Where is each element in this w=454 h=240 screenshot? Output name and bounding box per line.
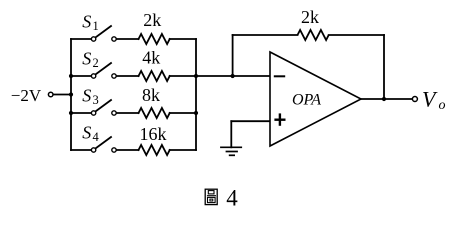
- svg-text:8k: 8k: [142, 85, 160, 105]
- svg-text:4: 4: [93, 130, 100, 144]
- svg-text:3: 3: [93, 93, 99, 107]
- svg-text:2: 2: [93, 56, 99, 70]
- svg-text:S: S: [82, 86, 91, 106]
- svg-text:4: 4: [226, 186, 238, 211]
- svg-text:S: S: [82, 12, 91, 32]
- svg-text:S: S: [82, 49, 91, 69]
- svg-text:V: V: [422, 87, 438, 112]
- svg-text:−2V: −2V: [11, 86, 42, 105]
- svg-text:1: 1: [93, 19, 99, 33]
- svg-text:4k: 4k: [142, 47, 160, 67]
- svg-text:2k: 2k: [301, 7, 319, 27]
- svg-text:S: S: [82, 123, 91, 143]
- svg-text:16k: 16k: [140, 124, 167, 144]
- svg-text:2k: 2k: [143, 10, 161, 30]
- svg-text:OPA: OPA: [292, 91, 321, 108]
- svg-text:o: o: [439, 98, 446, 113]
